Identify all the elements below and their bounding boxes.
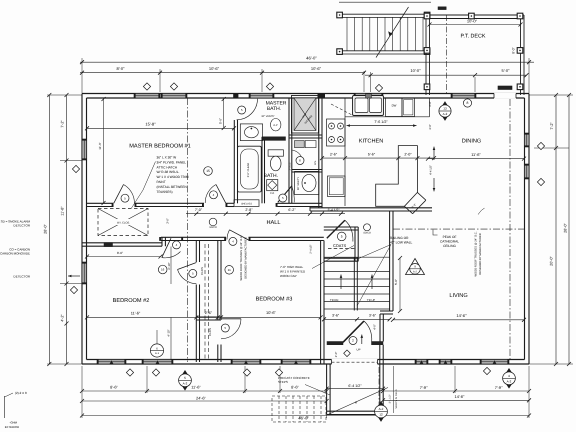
svg-text:8: 8 bbox=[467, 101, 469, 105]
svg-text:BATH.: BATH. bbox=[264, 173, 278, 179]
svg-text:SD/CO: SD/CO bbox=[209, 226, 217, 229]
svg-text:DESIGNED BY MANUFACTURER: DESIGNED BY MANUFACTURER bbox=[479, 233, 482, 275]
elevation tag 4/A-2 bbox=[503, 369, 515, 389]
verify in field note bbox=[393, 366, 395, 413]
ceiling tag circle 15 bbox=[204, 167, 213, 176]
stair up arrow bbox=[371, 275, 373, 290]
svg-text:14'-6": 14'-6" bbox=[456, 313, 467, 318]
bottom extension lines bbox=[81, 366, 83, 418]
wall below linen (horizontal) bbox=[292, 169, 322, 171]
window bedroom3 bottom 1 bbox=[231, 360, 261, 365]
svg-text:36" VANITY: 36" VANITY bbox=[297, 177, 300, 191]
kitchen sink bbox=[353, 96, 384, 116]
window dining right 2 bbox=[525, 164, 530, 179]
dining ceiling tag circle 8 bbox=[463, 99, 471, 107]
svg-text:P.T. DECK: P.T. DECK bbox=[460, 34, 485, 40]
ceiling tag circle 11 bbox=[225, 266, 234, 275]
wall stairwell left / bedroom3 right (vertical) bbox=[320, 241, 322, 365]
svg-text:5: 5 bbox=[184, 376, 186, 380]
wall kitchen / hall (horizontal) bbox=[310, 207, 432, 209]
wall entry / living (vertical) bbox=[379, 314, 381, 342]
hall to bedroom3 door bbox=[230, 230, 249, 240]
living dimension 14'-6 bbox=[393, 319, 524, 321]
svg-text:UP: UP bbox=[357, 348, 361, 352]
wall stairwell right (vertical) bbox=[389, 211, 391, 311]
centerline dining/living vertical (dash-dot) bbox=[509, 99, 511, 360]
section tag A-2/12 bbox=[375, 402, 387, 422]
bath door leaf bbox=[278, 186, 292, 202]
entry threshold dashed bbox=[332, 361, 378, 363]
deck centerline (dash-dot) bbox=[446, 15, 448, 95]
svg-text:BEDROOM #2: BEDROOM #2 bbox=[113, 298, 150, 304]
svg-text:3'-1 1/2": 3'-1 1/2" bbox=[389, 394, 392, 403]
svg-text:CO = CARBON: CO = CARBON bbox=[9, 247, 30, 251]
door tag circle 5 bbox=[121, 194, 129, 202]
right overall dimension 28'-0 bbox=[568, 95, 570, 364]
exterior right wall bbox=[528, 94, 530, 365]
wall master bedroom / hall (horizontal) bbox=[87, 202, 114, 204]
svg-text:CEILING: CEILING bbox=[443, 244, 456, 248]
svg-text:VERIFY IN FIELD: VERIFY IN FIELD bbox=[395, 389, 398, 408]
top dimension row 10'-0 / 5'-0 (right) bbox=[365, 74, 527, 76]
svg-text:28'-0": 28'-0" bbox=[564, 223, 568, 233]
svg-text:30" VANITY: 30" VANITY bbox=[261, 115, 275, 118]
coats rod dashed bbox=[328, 248, 356, 250]
wall bath / kitchen (vertical) bbox=[318, 98, 320, 208]
window bedroom3 bottom 2 bbox=[281, 360, 311, 365]
wall corner block bath bbox=[233, 94, 238, 99]
svg-text:BEDROOM #3: BEDROOM #3 bbox=[256, 297, 293, 303]
window tag diamonds left wall bbox=[72, 165, 79, 172]
entry door tag circle 2 bbox=[349, 337, 357, 345]
window center marks bottom wall bbox=[109, 360, 113, 364]
master bedroom dimension 15'-8 bbox=[87, 127, 234, 129]
centerline left half (dash-dot) bbox=[187, 98, 189, 362]
svg-text:W.I. CLOS.: W.I. CLOS. bbox=[117, 221, 130, 224]
svg-text:5'-0": 5'-0" bbox=[502, 68, 511, 73]
stair landing edge bbox=[324, 256, 390, 258]
svg-text:DETECTOR: DETECTOR bbox=[14, 224, 31, 228]
railing note leaders bbox=[358, 245, 392, 260]
svg-text:WOOD ROOF TRUSSES @ 24" O.C.: WOOD ROOF TRUSSES @ 24" O.C. bbox=[240, 235, 243, 280]
svg-text:KITCHEN: KITCHEN bbox=[359, 139, 384, 145]
vestibule bottom wall bbox=[327, 410, 384, 412]
shelves box in hall wall bbox=[234, 200, 259, 207]
svg-text:8'-0": 8'-0" bbox=[117, 251, 123, 255]
wall closet bottom (horizontal) bbox=[82, 242, 162, 244]
svg-text:2'-4 1/2": 2'-4 1/2" bbox=[310, 244, 313, 253]
high wall leaders bbox=[312, 246, 354, 269]
cabinet right of dishwasher bbox=[402, 98, 415, 117]
master bedroom door left bbox=[114, 185, 124, 204]
vestibule right wall bbox=[379, 345, 381, 415]
svg-text:8'-0": 8'-0" bbox=[512, 47, 516, 53]
bath door tag circle 5 bbox=[279, 194, 287, 202]
deck door threshold bbox=[498, 86, 512, 90]
svg-text:3'-0": 3'-0" bbox=[429, 124, 432, 129]
svg-text:COATS: COATS bbox=[333, 243, 347, 248]
svg-text:46'-0": 46'-0" bbox=[306, 55, 317, 60]
window bedroom2 left bbox=[82, 262, 87, 284]
wall below shower (horizontal) bbox=[289, 134, 322, 136]
wall tub column (vertical) bbox=[261, 137, 263, 203]
svg-text:5'-6": 5'-6" bbox=[219, 118, 223, 124]
right dimension row 7'-2 / 20'-0 bbox=[555, 95, 557, 364]
svg-text:7'-2": 7'-2" bbox=[61, 120, 65, 128]
svg-text:5'-6": 5'-6" bbox=[368, 153, 376, 157]
walk-in closet label bbox=[111, 219, 137, 225]
svg-text:PRECAST CONCRETE: PRECAST CONCRETE bbox=[278, 376, 310, 380]
svg-text:W/ 1 X 4 WOOD TRIM: W/ 1 X 4 WOOD TRIM bbox=[157, 175, 189, 179]
master bath door tag circle 5 bbox=[238, 106, 246, 114]
exterior left wall bbox=[81, 94, 83, 365]
svg-text:4: 4 bbox=[508, 374, 510, 378]
svg-text:6'-4 1/2": 6'-4 1/2" bbox=[348, 384, 362, 388]
stair vertical dimension 5'-0 bbox=[399, 258, 401, 311]
window dining right 1 bbox=[525, 133, 530, 147]
svg-text:11'-6": 11'-6" bbox=[98, 142, 102, 149]
cabinet boxes below shower bbox=[295, 141, 305, 148]
closet door jamb bar bbox=[104, 243, 113, 247]
top dimension extension lines bbox=[81, 58, 83, 93]
window living bottom 1 bbox=[415, 360, 428, 365]
cathedral note leader bbox=[433, 230, 438, 235]
deck stair direction diagonal with arrow bbox=[376, 7, 409, 58]
base cabinet bbox=[328, 176, 346, 197]
svg-text:13: 13 bbox=[443, 107, 447, 111]
deck outline bbox=[426, 14, 524, 16]
closet door to bedroom2 bbox=[178, 263, 197, 270]
svg-text:DESIGNED BY MANUFACTURER: DESIGNED BY MANUFACTURER bbox=[245, 237, 248, 279]
wall jog stair to entry (horizontal) bbox=[380, 310, 393, 312]
svg-text:4'-2": 4'-2" bbox=[61, 314, 65, 322]
svg-text:5'-0" CLEAR: 5'-0" CLEAR bbox=[247, 163, 250, 178]
bedroom2 alcove vertical dim line bbox=[170, 247, 172, 285]
bath tub 5'-0 clear bbox=[238, 146, 262, 192]
wall corner block kitchen bbox=[318, 93, 326, 98]
door jamb caps bedroom hall doors bbox=[224, 237, 226, 241]
svg-text:7'-0": 7'-0" bbox=[195, 208, 203, 212]
svg-text:A-2: A-2 bbox=[379, 407, 384, 411]
svg-text:A-2: A-2 bbox=[183, 381, 188, 385]
window living bottom 3 bbox=[480, 360, 509, 365]
svg-text:24'-6": 24'-6" bbox=[196, 396, 207, 401]
roof line bar above deck bbox=[438, 7, 446, 10]
bedroom2 lower vertical dim bbox=[170, 317, 172, 360]
top dimension row 8'-0 / 10'-6 / 10'-6 bbox=[80, 72, 365, 74]
svg-text:DETECTOR: DETECTOR bbox=[14, 275, 31, 279]
window kitchen top bbox=[354, 94, 383, 99]
exterior bottom wall bbox=[82, 363, 529, 365]
left dimension row 7'-2 / 11'-8 / 4'-2 bbox=[66, 95, 68, 364]
dishwasher DW bbox=[386, 98, 403, 117]
wall closet column right (vertical) bbox=[217, 241, 219, 321]
svg-text:7'-9": 7'-9" bbox=[495, 385, 503, 390]
svg-text:10'-6": 10'-6" bbox=[209, 66, 220, 71]
svg-text:7'-6 1/2": 7'-6 1/2" bbox=[374, 120, 388, 124]
door jamb caps hall wall bbox=[112, 203, 114, 207]
wall jog bedroom2 door (vertical) bbox=[161, 237, 163, 246]
svg-text:8'-0": 8'-0" bbox=[273, 124, 278, 127]
deck stair posts bbox=[337, 12, 343, 18]
svg-text:3'-6": 3'-6" bbox=[165, 218, 169, 224]
svg-text:(2)-2 X 8: (2)-2 X 8 bbox=[15, 391, 27, 395]
toilet bbox=[268, 150, 283, 156]
section triangle tag 9/A-2 bbox=[406, 259, 425, 275]
hall dimension row bbox=[186, 213, 345, 215]
svg-text:10'-0": 10'-0" bbox=[410, 68, 421, 73]
bottom overall dimension 46'-0 bbox=[82, 415, 529, 417]
svg-text:CATHEDRAL: CATHEDRAL bbox=[440, 239, 459, 243]
bedroom3 dimension row 2'-6 / 10'-6 bbox=[196, 316, 320, 318]
kitchen/dining tag diamond 13/A-2 bbox=[439, 102, 451, 121]
svg-text:SD = SMOKE ALARM: SD = SMOKE ALARM bbox=[1, 219, 31, 223]
bottom dimension row 1 bbox=[82, 390, 327, 392]
deck stair treads bbox=[346, 17, 348, 50]
left overall dimension 28'-0 bbox=[48, 95, 50, 364]
wall hall / bedrooms (horizontal) bbox=[161, 236, 226, 238]
elevation tag 5/A-2 bbox=[179, 371, 191, 391]
window tag leader bbox=[156, 330, 158, 344]
svg-text:PEAK OF: PEAK OF bbox=[443, 235, 457, 239]
svg-text:WOOD CAP: WOOD CAP bbox=[280, 274, 297, 278]
svg-text:36" L X 30" W: 36" L X 30" W bbox=[157, 156, 177, 160]
svg-text:3'-6": 3'-6" bbox=[369, 313, 377, 317]
coats closet walls bbox=[324, 226, 358, 228]
window tag circle 6/A-1 bbox=[150, 344, 163, 357]
precast steps dashed grid bbox=[272, 396, 326, 422]
right dimension connectors bbox=[529, 94, 573, 96]
window bedroom2 bottom 1 bbox=[97, 360, 126, 365]
deck stair top boundary line bbox=[339, 1, 431, 3]
svg-text:10'-0": 10'-0" bbox=[467, 19, 478, 24]
svg-text:F/A: F/A bbox=[270, 192, 274, 195]
centerline entry (dash-dot) bbox=[378, 367, 380, 410]
walk-in closet dashed outline bbox=[98, 209, 148, 236]
window bedroom2 bottom 2 bbox=[142, 360, 173, 365]
svg-text:6'-2": 6'-2" bbox=[288, 208, 296, 212]
shower 4x4 bbox=[292, 96, 319, 134]
svg-text:12: 12 bbox=[379, 413, 383, 417]
svg-text:7'-2": 7'-2" bbox=[550, 122, 554, 130]
svg-text:STEPS: STEPS bbox=[278, 380, 288, 384]
svg-text:11'-6": 11'-6" bbox=[191, 385, 201, 390]
overall top dimension 46'-0 bbox=[80, 61, 534, 63]
svg-text:7'R UP: 7'R UP bbox=[367, 299, 376, 302]
stair center rail bbox=[353, 257, 355, 310]
svg-text:16: 16 bbox=[161, 268, 165, 272]
kitchen counter top edge bbox=[345, 116, 430, 118]
svg-text:42" LOW WALL: 42" LOW WALL bbox=[390, 241, 412, 245]
svg-text:CLOS: CLOS bbox=[208, 328, 212, 336]
entry up arrow bbox=[361, 335, 363, 345]
svg-text:2'-6": 2'-6" bbox=[330, 153, 338, 157]
svg-text:CLOS: CLOS bbox=[200, 267, 204, 275]
entry opening in bottom wall bbox=[332, 359, 378, 365]
svg-text:2'-0 1/2": 2'-0 1/2" bbox=[288, 161, 291, 170]
svg-text:MASTER BEDROOM #1: MASTER BEDROOM #1 bbox=[129, 144, 191, 150]
deck interior dimension 10'-0 bbox=[430, 24, 521, 26]
svg-text:TRUSSES): TRUSSES) bbox=[157, 190, 173, 194]
svg-text:3'-4 1/2": 3'-4 1/2" bbox=[327, 208, 340, 212]
exterior top wall bbox=[82, 93, 529, 95]
furnace access box F/A bbox=[267, 180, 278, 191]
bedroom2 dimension 11'-6 bbox=[87, 316, 196, 318]
window master bedroom top 2 bbox=[161, 94, 187, 99]
smoke detector hall bbox=[209, 218, 217, 226]
svg-text:15: 15 bbox=[206, 169, 210, 173]
svg-text:20'-0": 20'-0" bbox=[549, 256, 553, 266]
svg-text:8'-0": 8'-0" bbox=[117, 66, 126, 71]
kitchen dimension 7'-6 1/2 bbox=[347, 125, 382, 127]
wall closet divider (horizontal) bbox=[196, 316, 221, 318]
deck door opening in top wall bbox=[494, 93, 516, 99]
svg-text:A-1: A-1 bbox=[155, 352, 160, 355]
window dining top bbox=[451, 94, 476, 99]
bottom dimension row 2: 24'-6 / 14'-6 bbox=[82, 400, 327, 402]
kitchen island bbox=[376, 146, 418, 207]
closet door tag circle 5 bbox=[221, 324, 229, 332]
bedroom2 door tag circle 4 bbox=[173, 241, 181, 249]
door tag circle 4 bbox=[210, 191, 218, 199]
kitchen counter front edge bbox=[344, 98, 346, 206]
svg-text:DW: DW bbox=[392, 103, 397, 107]
svg-text:CARBON MONOXIDE: CARBON MONOXIDE bbox=[0, 252, 30, 256]
wall toilet/shower column (vertical) bbox=[288, 98, 290, 203]
svg-text:ATTIC HATCH: ATTIC HATCH bbox=[157, 165, 178, 169]
svg-text:10'-6": 10'-6" bbox=[266, 310, 277, 315]
svg-text:A-2: A-2 bbox=[507, 379, 512, 383]
svg-text:SD/CO: SD/CO bbox=[363, 231, 371, 234]
bedroom2 door bbox=[162, 238, 171, 257]
window master bedroom left bbox=[82, 139, 87, 160]
svg-text:6'-10": 6'-10" bbox=[167, 262, 171, 269]
section cut line A bbox=[328, 388, 388, 415]
svg-text:2'-6": 2'-6" bbox=[205, 311, 213, 315]
svg-text:7'-6" HIGH WALL: 7'-6" HIGH WALL bbox=[280, 265, 304, 269]
svg-text:14'-6": 14'-6" bbox=[455, 394, 466, 399]
vestibule left wall bbox=[326, 364, 328, 415]
entry door leaf bbox=[343, 321, 364, 342]
window master bedroom top 1 bbox=[134, 94, 160, 99]
svg-text:2'-0": 2'-0" bbox=[334, 352, 338, 358]
svg-text:11'-6": 11'-6" bbox=[471, 152, 481, 157]
svg-text:WOOD ROOF TRUSSES @ 24" O.C.: WOOD ROOF TRUSSES @ 24" O.C. bbox=[474, 231, 477, 276]
window tag diamonds top wall bbox=[143, 83, 150, 90]
master vanity with sink bbox=[240, 124, 262, 141]
svg-text:-GHM: -GHM bbox=[10, 420, 18, 424]
master bath door arc bbox=[237, 99, 258, 120]
master bedroom right vertical dim line bbox=[223, 99, 225, 128]
svg-text:PAINT: PAINT bbox=[157, 180, 166, 184]
svg-text:SHELVES: SHELVES bbox=[241, 202, 252, 205]
svg-text:RAILING OR: RAILING OR bbox=[390, 236, 409, 240]
wall master bedroom / bath (vertical) bbox=[233, 97, 235, 100]
half wall bar in bath bbox=[262, 137, 286, 141]
svg-text:A-2: A-2 bbox=[443, 112, 448, 116]
svg-text:EXTERIOR: EXTERIOR bbox=[5, 425, 19, 429]
svg-text:W/ 1 X 6 PAINTED: W/ 1 X 6 PAINTED bbox=[280, 269, 306, 273]
deck posts bbox=[424, 13, 430, 19]
entry door wall segments bbox=[327, 342, 343, 345]
left dimension connectors bbox=[47, 94, 82, 96]
svg-text:2'-0": 2'-0" bbox=[429, 101, 432, 106]
coats door tag circle 5 bbox=[337, 232, 346, 241]
smoke detector stairs bbox=[364, 224, 371, 231]
closet dimension 8'-0 bbox=[87, 256, 161, 258]
svg-text:11'-6": 11'-6" bbox=[131, 311, 141, 316]
svg-text:7'-9": 7'-9" bbox=[420, 385, 428, 390]
ceiling height tag 8'-0 ellipse bbox=[271, 119, 281, 131]
svg-text:10'-6": 10'-6" bbox=[311, 66, 322, 71]
svg-text:4'-10": 4'-10" bbox=[167, 329, 171, 336]
svg-text:2'-8": 2'-8" bbox=[245, 208, 253, 212]
left leader arrow bbox=[68, 275, 80, 277]
window master bath top bbox=[249, 94, 274, 99]
coats closet door bbox=[327, 220, 345, 238]
svg-text:W/ R-38 INSUL.: W/ R-38 INSUL. bbox=[157, 170, 180, 174]
island angled cap bbox=[417, 192, 426, 200]
svg-text:8'-6": 8'-6" bbox=[110, 385, 118, 390]
stair down arrow bbox=[340, 275, 342, 290]
closet dashed shelf lines bbox=[204, 244, 206, 359]
dining dimension 11'-6 bbox=[428, 158, 524, 160]
svg-text:11'-8": 11'-8" bbox=[61, 206, 65, 216]
truss note leader (living) bbox=[478, 208, 485, 215]
window living bottom 2 bbox=[439, 360, 452, 365]
kitchen dimension row 2'-6 / 5'-6 / 2'-0 bbox=[322, 157, 434, 159]
svg-text:5: 5 bbox=[341, 235, 343, 239]
svg-text:8'-6": 8'-6" bbox=[291, 385, 299, 390]
svg-text:11: 11 bbox=[228, 268, 231, 272]
master bedroom interior vertical dim line bbox=[103, 99, 105, 203]
corner dashed bbox=[331, 104, 352, 115]
master bedroom door right bbox=[216, 185, 226, 204]
range with burners bbox=[327, 119, 346, 146]
centerline cathedral peak horizontal (dash-dot) bbox=[393, 228, 527, 230]
svg-text:5'-0": 5'-0" bbox=[394, 279, 398, 285]
svg-text:(INSTALL BETWEEN: (INSTALL BETWEEN bbox=[157, 185, 188, 189]
wall closet column left (vertical) bbox=[195, 241, 197, 263]
linen door tag circle 6 bbox=[296, 157, 304, 165]
entry diamond bbox=[344, 350, 351, 357]
svg-text:LIN.: LIN. bbox=[314, 160, 317, 165]
window tag diamonds right wall bbox=[537, 142, 544, 149]
island vertical dimension 4'-4 1/2 bbox=[433, 147, 435, 160]
svg-text:28'-0": 28'-0" bbox=[43, 224, 47, 234]
svg-text:BATH.: BATH. bbox=[267, 106, 281, 112]
svg-text:15'-8": 15'-8" bbox=[145, 122, 156, 127]
window tag diamonds bottom wall bbox=[126, 369, 133, 376]
svg-text:4'-4 1/2": 4'-4 1/2" bbox=[429, 165, 432, 175]
svg-text:3'-6": 3'-6" bbox=[332, 313, 340, 317]
bedroom3 closet door bbox=[221, 318, 241, 320]
stair width dimensions 3'-6 / 3'-6 bbox=[324, 318, 390, 320]
svg-text:2'-0": 2'-0" bbox=[404, 153, 412, 157]
svg-text:A-2: A-2 bbox=[413, 270, 418, 273]
door tag circle 4 bbox=[229, 237, 237, 245]
svg-text:3/4" PLYWD. PANEL: 3/4" PLYWD. PANEL bbox=[157, 160, 187, 164]
stair treads bbox=[324, 271, 390, 273]
walk-in closet cross diagonals bbox=[98, 209, 148, 236]
ceiling tag circle 16 bbox=[158, 265, 167, 274]
svg-text:DINING: DINING bbox=[462, 139, 482, 145]
svg-text:4'-0": 4'-0" bbox=[372, 324, 376, 330]
svg-text:HALL: HALL bbox=[267, 220, 281, 226]
svg-text:LIVING: LIVING bbox=[449, 293, 467, 299]
closet door tag circle 5 bbox=[189, 269, 197, 277]
deck stair rails bbox=[339, 13, 427, 15]
